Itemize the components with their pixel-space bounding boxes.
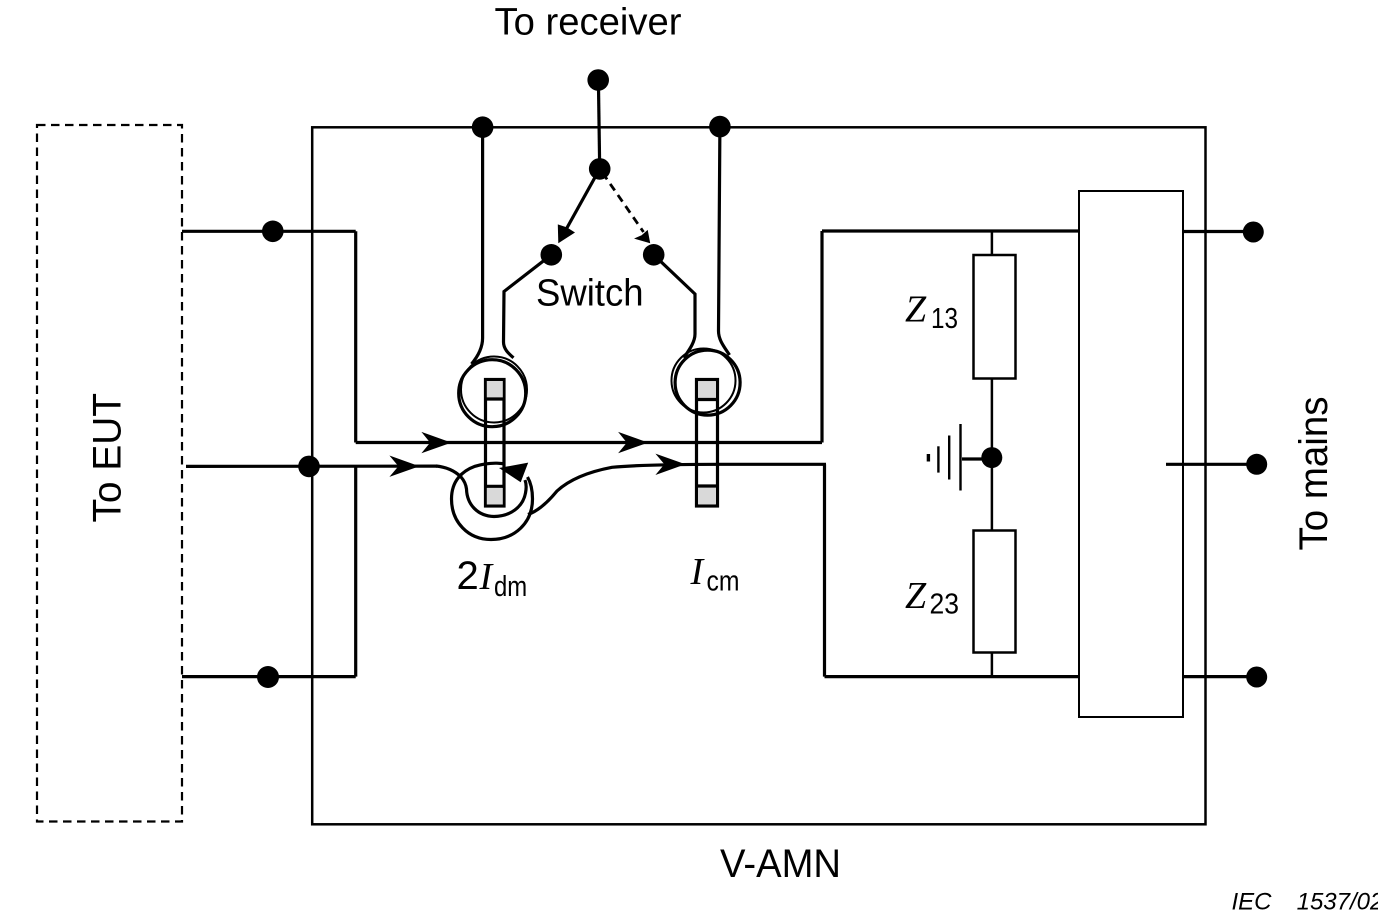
current transformer 2Idm circle [459,360,526,427]
wire: mains line 3 [1183,675,1257,678]
wire: EUT line 1 top [182,230,356,233]
impedance Z23 body [974,531,1016,653]
current transformer Icm circle [675,350,740,415]
2Idm sensing bar [486,380,505,507]
wire: top line to mains box [822,229,1079,232]
wire: right probe left lead from switch [654,255,695,358]
V-AMN enclosure box [312,127,1205,824]
wire: receiver stem [598,80,599,169]
switch dashed throw arm [603,173,644,232]
current transformer 2Idm sketch arc [461,357,527,423]
terminal dot mains 2 [1246,454,1267,475]
wire: mains line 2 [1166,463,1257,466]
wire: right probe right lead [719,127,730,355]
terminal dot mains 1 [1243,222,1264,243]
svg-text:23: 23 [930,589,960,621]
EUT dashed box [37,125,182,822]
arrow on middle line before Icm [655,454,685,475]
wire: left probe left lead [472,127,483,364]
node dot switch contact right [643,244,665,266]
arrow on middle line [389,456,419,477]
arrow dashed throw [634,230,650,243]
wire: 2Idm loop exit to Icm [528,464,826,514]
svg-text:cm: cm [707,566,740,598]
ground node dot [981,447,1002,468]
wire: 2Idm outer loop [452,463,533,539]
svg-text:I: I [690,551,706,593]
Icm sensing bar [697,380,718,507]
wire: bottom line to mains box [825,675,1080,678]
wire: vertical drop line1 [354,231,357,442]
node dot switch contact left [541,244,563,266]
ground symbol [928,424,983,491]
impedance Z13 stem top [991,231,994,255]
wire: mains line 1 [1183,230,1254,233]
node dot EUT line 3 [257,666,279,688]
wire: riser to top right [820,231,823,443]
current transformer Icm sketch arc [672,349,736,413]
node dot EUT line 1 [262,221,284,243]
svg-text:To mains: To mains [1292,397,1336,551]
wire: upper probe line [356,441,822,444]
wire: 2Idm loop [436,466,526,517]
node dot EUT line 2 on enclosure [298,456,320,478]
impedance Z13-Z23 connecting wire [991,379,994,531]
switch solid throw arm [561,169,600,240]
svg-text:To EUT: To EUT [85,393,129,523]
svg-text:V-AMN: V-AMN [720,842,841,886]
mains isolation box (right) [1079,191,1183,717]
node dot receiver terminal [587,69,609,91]
wire: left probe right lead from switch [504,255,552,358]
svg-text:I: I [479,556,495,598]
svg-text:Z: Z [905,289,927,331]
svg-text:2: 2 [457,554,479,598]
impedance Z23 stem bottom [991,653,994,677]
wire: vertical drop line2 to bottom [354,466,357,676]
svg-text:To receiver: To receiver [495,2,682,44]
impedance Z13 body [974,255,1016,379]
arrow on loop top pointing left [499,463,528,483]
svg-text:1537/02: 1537/02 [1297,889,1378,914]
svg-text:dm: dm [494,571,527,603]
node dot on top border right probe [709,116,731,138]
svg-text:IEC: IEC [1232,889,1273,914]
terminal dot mains 3 [1246,667,1267,688]
svg-text:Switch: Switch [536,273,644,315]
arrow solid throw [558,224,575,243]
wire: EUT line 2 middle [186,465,437,468]
wire: EUT line 3 bottom [182,675,356,678]
svg-text:13: 13 [931,303,958,335]
arrow on upper probe line right [618,432,648,453]
arrow on upper probe line left [421,432,451,453]
wire: drop to bottom line right [823,464,826,676]
svg-text:Z: Z [905,575,927,617]
node dot on top border left probe [472,116,494,138]
node dot switch pivot [589,158,611,180]
